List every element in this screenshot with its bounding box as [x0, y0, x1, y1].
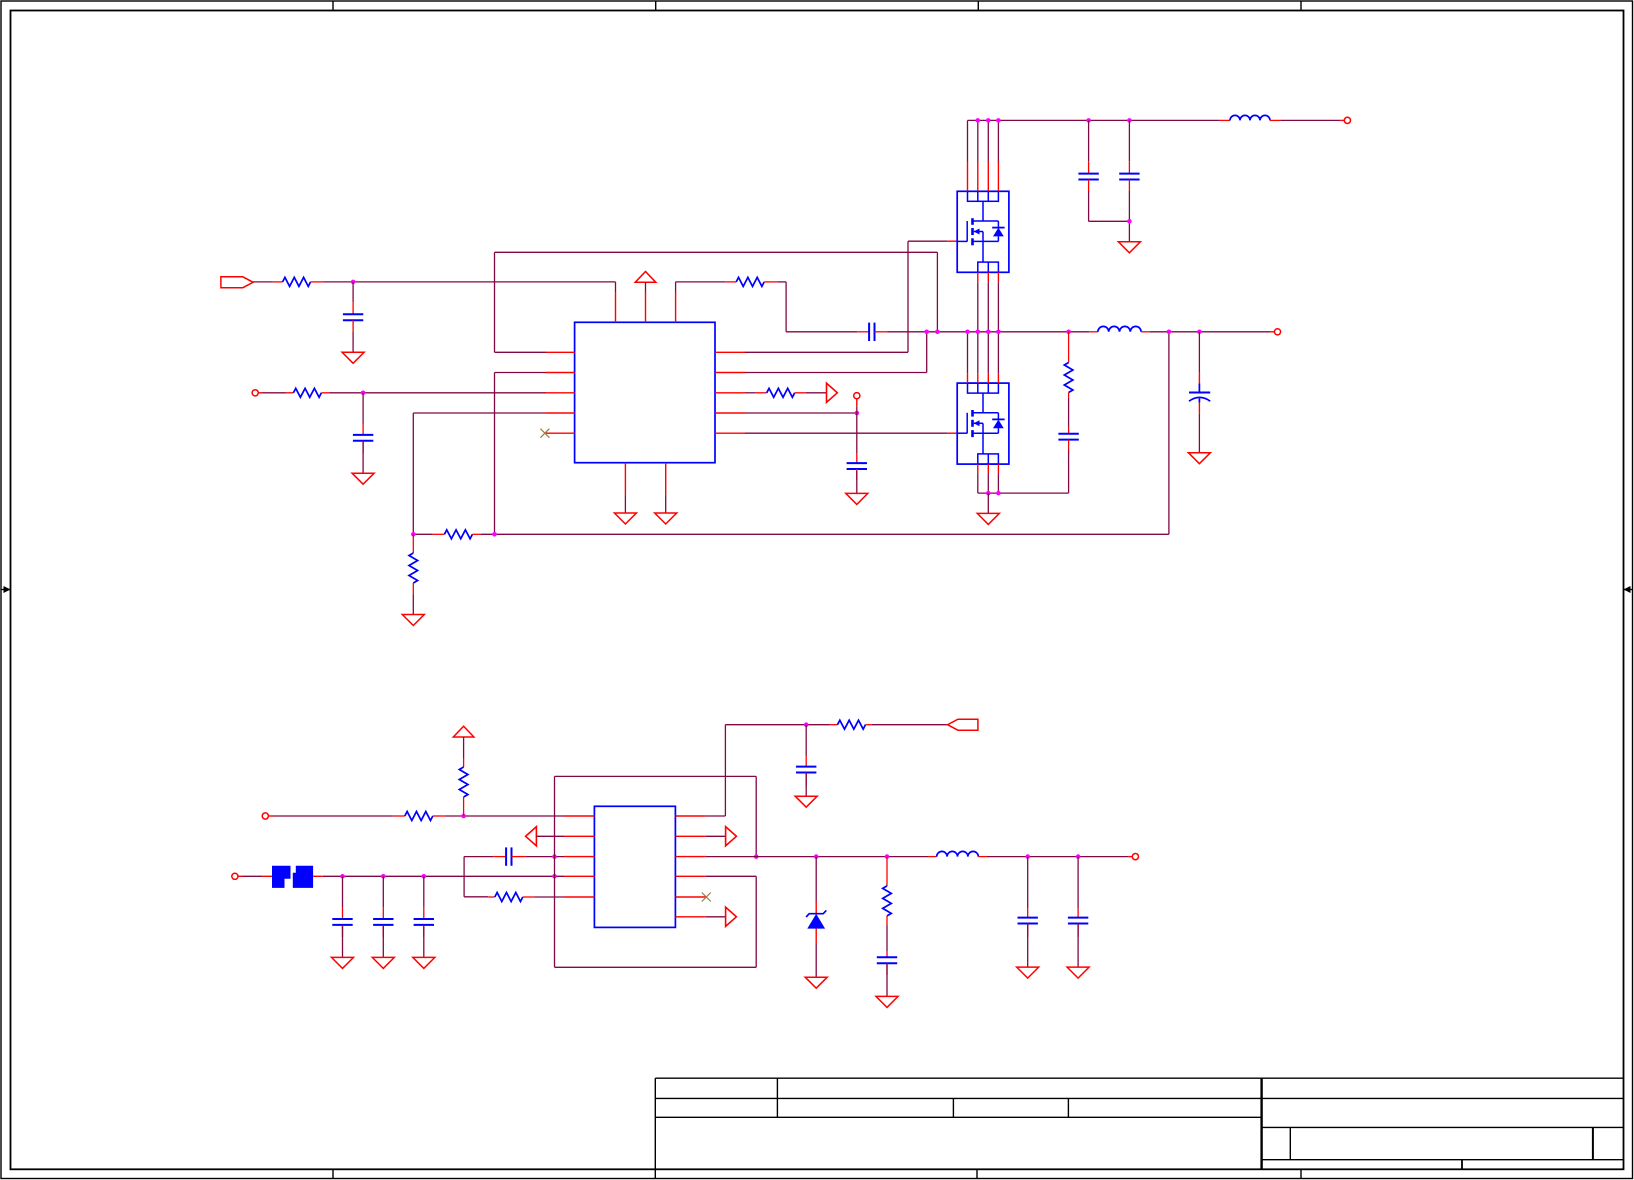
wire R2 to U1 pin left3: [330, 392, 547, 394]
wire T4 to F1: [238, 875, 262, 877]
power symbol EN pullup: [453, 726, 474, 737]
wire C12 to U2 pin left3: [526, 856, 564, 858]
U1 pins: [546, 292, 745, 494]
ground U1 pin bot2: [655, 513, 677, 524]
wire U1 pin right1 to Q1 gate: [745, 241, 948, 352]
wire L1 to VIN terminal: [1281, 119, 1345, 121]
junction VOUT2 at C16: [1025, 854, 1030, 859]
wire U1 pin bot1 to ground: [624, 494, 626, 513]
wire VIN2 to C9: [342, 876, 344, 907]
resistor R5 divider low: [409, 534, 418, 594]
resistor R7 snubber: [1064, 332, 1073, 398]
ground Q2 source: [977, 513, 999, 524]
ground C4 C5: [1118, 242, 1140, 253]
pins Q2 drain columns: [968, 332, 999, 383]
wire U1 pin top3 to R3: [676, 282, 726, 292]
wire VIN to C4: [1088, 120, 1090, 161]
capacitor C12 comp: [493, 847, 526, 865]
wire node SS down to C2: [362, 393, 364, 424]
ground C17: [1067, 967, 1089, 978]
ground C2: [352, 473, 374, 484]
wire VIN2 to C10: [382, 876, 384, 907]
wire U1 pin right2 to SW: [745, 332, 927, 373]
off-page connector PGOOD: [827, 383, 838, 402]
junction VIN a: [976, 118, 981, 123]
wire T3 to R8: [268, 815, 393, 817]
ground U1 pin bot1: [614, 513, 636, 524]
wire C17 to ground: [1077, 924, 1079, 968]
wire R8 to U2 pin left1: [445, 815, 564, 817]
pin Q1 gate: [948, 240, 958, 242]
junction BST node: [804, 722, 809, 727]
wire VIN to C5: [1128, 120, 1130, 161]
capacitor C2: [353, 424, 373, 454]
junction SW2 at D1: [814, 854, 819, 859]
wire PGND to ground: [987, 493, 989, 513]
inductor L1 input filter: [1220, 115, 1281, 120]
capacitor C4: [1078, 161, 1098, 191]
ground C11: [413, 957, 435, 968]
terminal VIN_IN: [1344, 117, 1350, 123]
pins Q1 source columns: [978, 272, 999, 332]
junction FB at U1 loop: [492, 532, 497, 537]
wire VIN2 to C11: [423, 876, 425, 907]
wire C8 to ground: [1198, 414, 1200, 453]
junction SW at snubber: [1066, 330, 1071, 335]
wire U1 pin right4 to node: [745, 412, 857, 414]
wire FB row to output: [481, 332, 1169, 535]
wire T2 to node VREG: [856, 399, 858, 454]
wire PGND row: [978, 492, 1069, 494]
wire C1 to ground: [352, 332, 354, 353]
terminal VOUT2: [1132, 854, 1138, 860]
terminal VOUT1: [1274, 329, 1280, 335]
wire R7 to C7: [1068, 398, 1070, 427]
inductor L2 output: [1089, 326, 1150, 331]
resistor R2: [286, 388, 330, 397]
wire C9 to ground: [342, 925, 344, 958]
terminal T4 VIN2: [232, 873, 238, 879]
transistor Q1 high-side: [957, 191, 1009, 272]
wire R1 to U1 pin top1: [323, 282, 615, 292]
capacitor C16: [1018, 908, 1038, 937]
junction SW2 at snubber: [885, 854, 890, 859]
junction VIN2 at loop: [552, 874, 557, 879]
junction SW d: [976, 330, 981, 335]
wire loop right verticals: [755, 776, 757, 967]
wire comp R row: [464, 896, 488, 898]
wire node VCC1 to C1: [352, 282, 354, 302]
junction VIN b: [986, 118, 991, 123]
junction VIN2 at C10: [381, 874, 386, 879]
wire C13 to ground: [805, 773, 807, 797]
wire U1 pin left1 loop to SW: [495, 252, 938, 352]
junction SW f: [996, 330, 1001, 335]
wire L2 to VOUT1: [1150, 331, 1274, 333]
fuse F1: [262, 866, 323, 888]
junction PGND b: [996, 491, 1001, 496]
wire U2 pin right2 lead: [706, 835, 726, 837]
wire comp corner vertical: [463, 857, 465, 897]
wire C14 to ground: [886, 963, 888, 996]
junction VOUT1 at C8: [1197, 330, 1202, 335]
wire U1 pin left2 to FB row: [495, 373, 547, 535]
ground C16: [1017, 967, 1039, 978]
wire FB row left: [413, 533, 432, 535]
junction PGND a: [986, 491, 991, 496]
no-connect U2 pin right5: [702, 893, 711, 902]
resistor R4: [755, 388, 806, 397]
no-connect U1 pin left5: [540, 429, 549, 438]
wire U1 pin bot2 to ground: [665, 494, 667, 513]
ground C8: [1188, 453, 1210, 464]
wire C7 to PGND row: [1068, 451, 1070, 494]
junction VIN2 at C9: [340, 874, 345, 879]
junction SW a: [924, 330, 929, 335]
terminal T1: [252, 390, 258, 396]
wire SYNC to U2 pin left2: [536, 835, 564, 837]
ground D1: [805, 977, 827, 988]
terminal T2: [854, 393, 860, 399]
off-page connector SS2: [726, 907, 737, 926]
wire SW2 to D1: [815, 857, 817, 901]
capacitor C5: [1119, 161, 1139, 191]
wire R12 to C14: [886, 926, 888, 952]
wire VOUT2 to C16: [1027, 857, 1029, 909]
title block: [655, 1078, 1623, 1179]
junction SW c: [965, 330, 970, 335]
wire U2 pin right1 to BST row: [706, 725, 830, 816]
wire L3 to VOUT2: [987, 856, 1132, 858]
wire VOUT1 to C8: [1198, 332, 1200, 373]
capacitor C8 polarized: [1189, 373, 1210, 414]
ground C9: [332, 957, 354, 968]
wire U2 pin right4 to loop: [706, 875, 756, 877]
wire U2 loop top: [555, 775, 757, 777]
zener diode D1: [806, 901, 826, 944]
junction VIN c: [996, 118, 1001, 123]
transistor Q2 low-side: [957, 383, 1009, 464]
wire U1 pin left4 to divider tap: [413, 413, 546, 534]
wire U1 pin right3 lead: [745, 392, 755, 394]
capacitor C11: [414, 908, 434, 937]
junction VOUT2 at C17: [1076, 854, 1081, 859]
junction comp at loop: [552, 854, 557, 859]
pin Q2 gate: [948, 432, 958, 434]
junction SW b: [935, 330, 940, 335]
wire SW2 row: [706, 856, 928, 858]
junction loop at SW2: [754, 854, 759, 859]
input flag J2: [948, 719, 978, 730]
wire D1 to ground: [815, 944, 817, 977]
wire comp corner: [464, 856, 493, 858]
capacitor C6: [847, 454, 867, 480]
capacitor C14 snubber: [877, 951, 897, 975]
wire R3 to C3: [777, 282, 857, 332]
capacitor C10: [373, 908, 393, 937]
resistor R10 comp: [488, 893, 534, 902]
wire U2 pin right6 lead: [706, 916, 726, 918]
junction VIN2 at C11: [422, 874, 427, 879]
capacitor C17: [1068, 908, 1088, 937]
capacitor C7 snubber: [1058, 427, 1078, 451]
wire R5 to ground: [412, 594, 414, 614]
right centering arrow: [1624, 586, 1634, 593]
wire VIN row: [968, 119, 1220, 121]
pins Q2 source columns: [978, 464, 999, 493]
controller U1: [575, 322, 715, 462]
wire C5 to ground: [1128, 191, 1130, 242]
border zone ticks: [333, 1, 1301, 1179]
junction node VREG: [855, 411, 860, 416]
junction VIN at C4: [1086, 118, 1091, 123]
ground C14: [876, 996, 898, 1007]
wire SW row: [927, 331, 1089, 333]
wire U2 loop vertical: [554, 776, 556, 967]
wire power to R9: [463, 737, 465, 758]
wire R11 to flag: [872, 724, 948, 726]
capacitor C9: [332, 908, 352, 937]
wire T1 to R2: [258, 392, 285, 394]
wire VOUT2 to C17: [1077, 857, 1079, 909]
power symbol VCC U1: [635, 272, 656, 283]
ground R5: [402, 615, 424, 626]
wire C2 to ground: [362, 441, 364, 473]
wire power to U1 pin top2: [645, 282, 647, 292]
off-page connector PG2: [726, 827, 737, 846]
wire C3 to SW row: [888, 331, 927, 333]
terminal T3 enable: [262, 813, 268, 819]
off-page connector SYNC: [526, 827, 537, 846]
ground C13: [795, 796, 817, 807]
junction node VCC1: [351, 280, 356, 285]
wire C16 to ground: [1027, 924, 1029, 968]
pins Q1 drain columns: [968, 120, 999, 191]
resistor R11 bootstrap: [830, 720, 872, 729]
junction VOUT1 FB tap: [1167, 330, 1172, 335]
junction SW e: [986, 330, 991, 335]
wire VIN2 row: [323, 875, 564, 877]
wire C10 to ground: [382, 925, 384, 958]
capacitor C3 bootstrap: [857, 323, 887, 341]
wire R4 to offpage: [806, 392, 827, 394]
junction node SS: [361, 391, 366, 396]
ground C10: [372, 957, 394, 968]
wire BST node to C13: [805, 725, 807, 757]
resistor R9 pullup: [459, 758, 468, 816]
resistor R8: [393, 812, 445, 821]
resistor R6 feedback: [432, 530, 480, 539]
left centering arrow: [1, 586, 11, 593]
ground C6: [846, 493, 868, 504]
wire U2 loop bottom: [555, 966, 757, 968]
ground C1: [342, 352, 364, 363]
inductor L3 output: [928, 851, 987, 856]
junction FB at R5: [411, 532, 416, 537]
capacitor C1: [343, 302, 363, 331]
regulator U2: [594, 806, 675, 927]
resistor R3 bootstrap: [725, 277, 777, 286]
wire U1 pin right5 to Q2 gate: [745, 432, 948, 434]
junction C4 C5 ground: [1127, 219, 1132, 224]
U2 pins: [564, 816, 706, 917]
input flag J1: [221, 277, 253, 288]
junction VIN at C5: [1127, 118, 1132, 123]
resistor R1: [273, 277, 324, 286]
wire flag J1 to R1: [253, 281, 273, 283]
wire C11 to ground: [423, 925, 425, 958]
wire C6 to ground: [856, 471, 858, 494]
wire R10 to U2 pin left5: [535, 896, 564, 898]
wire C4 down to gnd bus: [1089, 191, 1130, 221]
capacitor C13: [796, 756, 816, 786]
resistor R12 snubber: [883, 857, 892, 926]
junction EN node: [461, 814, 466, 819]
